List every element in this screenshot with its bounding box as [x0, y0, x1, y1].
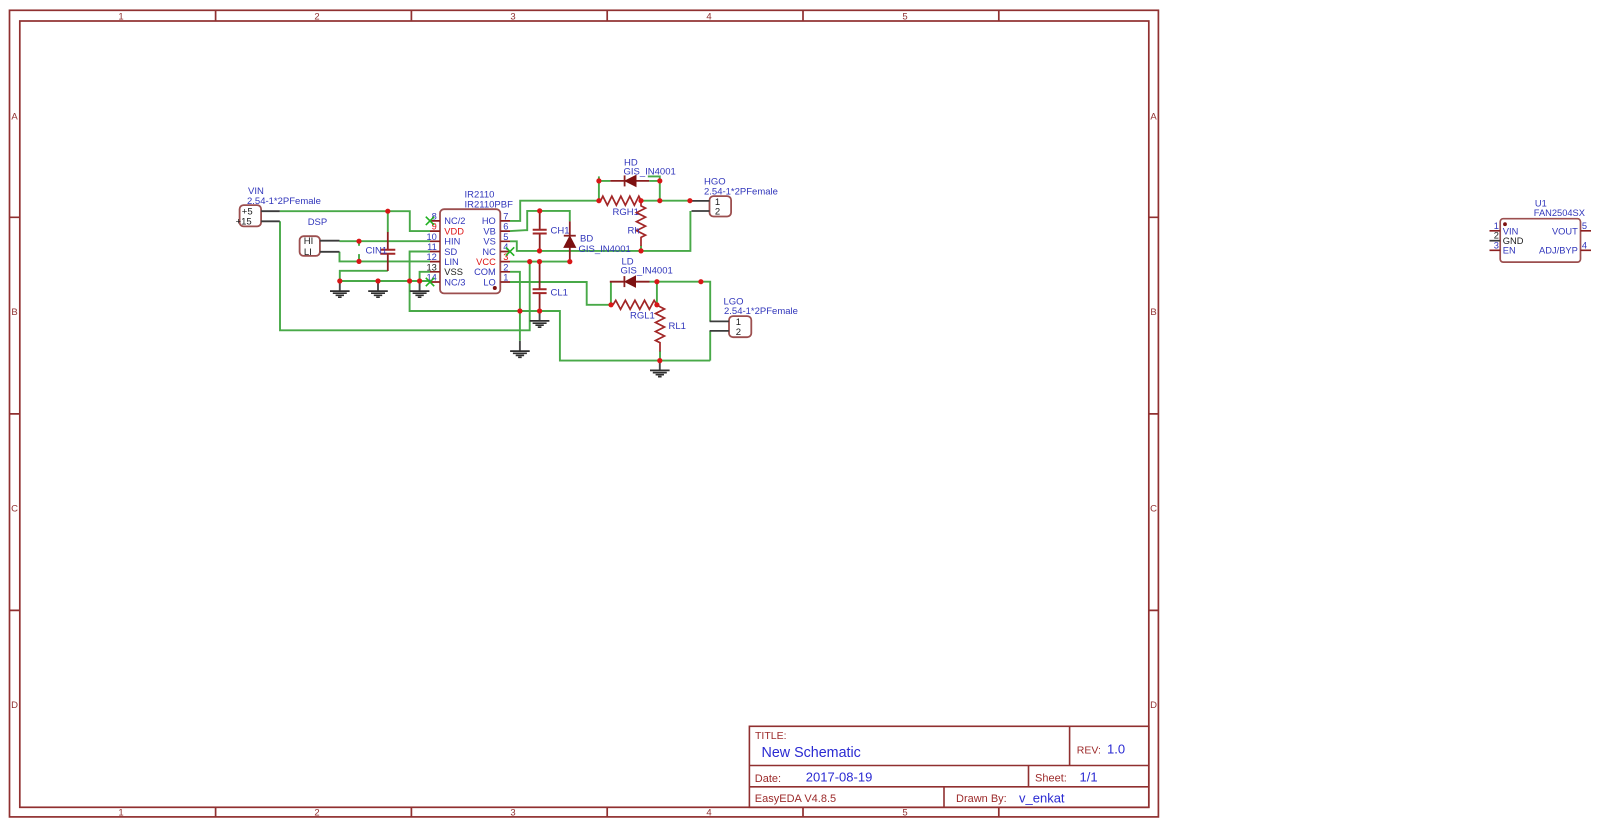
svg-text:RGL1: RGL1 [630, 310, 655, 321]
wire LO to RGL1 left node [510, 282, 611, 305]
svg-text:HI: HI [304, 236, 314, 247]
svg-text:GIS_IN4001: GIS_IN4001 [621, 265, 673, 276]
svg-text:RL1: RL1 [669, 321, 686, 332]
capacitor CIN1 [366, 232, 396, 271]
wire LD left leg down [610, 282, 612, 305]
ground G2 [368, 283, 388, 297]
svg-text:1.0: 1.0 [1107, 742, 1125, 757]
svg-text:4: 4 [706, 11, 711, 22]
wire VSS to ground bus [420, 272, 430, 281]
svg-text:VCC: VCC [476, 257, 496, 267]
ground G1 [330, 283, 350, 297]
svg-text:FAN2504SX: FAN2504SX [1534, 208, 1585, 218]
svg-text:A: A [1150, 112, 1157, 123]
ground G6 (bottom bus) [650, 363, 670, 377]
wire COM to ground [510, 272, 520, 341]
svg-text:2.54-1*2PFemale: 2.54-1*2PFemale [724, 306, 798, 317]
wire VS net to Rh bottom and HGO pin 2 [510, 211, 690, 251]
svg-text:TITLE:: TITLE: [755, 730, 787, 742]
svg-text:COM: COM [474, 267, 496, 277]
no-connect X pin 4 [506, 247, 514, 255]
wire RL1 bottom to ground bus [659, 351, 661, 361]
svg-text:C: C [11, 504, 18, 515]
diode LD GIS_IN4001 [610, 257, 673, 288]
wire VB to CH1/BD [510, 211, 570, 231]
junction dots [337, 178, 703, 363]
ground G4 (COM) [510, 341, 530, 358]
svg-text:Sheet:: Sheet: [1035, 773, 1067, 785]
svg-text:CL1: CL1 [551, 288, 568, 299]
no-connect X pin 14 [426, 278, 434, 286]
svg-text:12: 12 [426, 252, 436, 262]
svg-text:2: 2 [314, 808, 319, 819]
connector DSP (HI/LI) [300, 217, 340, 258]
svg-text:2.54-1*2PFemale: 2.54-1*2PFemale [247, 196, 321, 207]
svg-text:v_enkat: v_enkat [1019, 791, 1065, 806]
svg-text:4: 4 [706, 808, 711, 819]
svg-text:1/1: 1/1 [1080, 770, 1098, 785]
svg-text:A: A [11, 112, 18, 123]
svg-text:8: 8 [432, 211, 437, 221]
svg-text:Date:: Date: [755, 773, 781, 785]
svg-text:ADJ/BYP: ADJ/BYP [1539, 246, 1578, 256]
svg-text:2: 2 [314, 11, 319, 22]
svg-text:VS: VS [483, 237, 495, 247]
svg-text:3: 3 [510, 11, 515, 22]
svg-text:4: 4 [1582, 240, 1587, 250]
svg-text:1: 1 [118, 11, 123, 22]
svg-text:CIN1: CIN1 [366, 246, 388, 257]
svg-text:1: 1 [503, 273, 508, 283]
svg-text:7: 7 [503, 211, 508, 221]
wire CIN1 bottom to ground bus [340, 271, 388, 281]
wire LD right to LGO pin 1 [655, 282, 710, 322]
wire CIN1 top [387, 211, 389, 232]
svg-text:Drawn By:: Drawn By: [956, 793, 1007, 805]
svg-text:REV:: REV: [1077, 745, 1101, 757]
wire LGO pin 2 to bottom bus [709, 331, 711, 361]
svg-text:HIN: HIN [444, 237, 460, 247]
svg-text:5: 5 [902, 11, 907, 22]
svg-text:New Schematic: New Schematic [762, 745, 861, 761]
resistor RGL1 [613, 300, 657, 321]
svg-text:10: 10 [426, 232, 436, 242]
svg-text:3: 3 [1494, 240, 1499, 250]
svg-text:RGH1: RGH1 [613, 207, 639, 218]
svg-text:1: 1 [1494, 221, 1499, 231]
wire dashed stub lower at node LIN [358, 254, 360, 261]
svg-text:11: 11 [427, 242, 437, 252]
resistor RL1 [656, 305, 686, 352]
wire +5 to VDD (pin 9) [280, 211, 430, 231]
svg-text:B: B [11, 307, 17, 318]
ground G3 [410, 283, 430, 297]
wire HD left leg [598, 176, 600, 200]
svg-text:B: B [1150, 307, 1156, 318]
svg-text:5: 5 [1582, 221, 1587, 231]
wire LI to LIN (pin 12) [340, 252, 431, 262]
connector VIN [236, 186, 321, 228]
connector HGO [692, 176, 778, 217]
svg-text:GND: GND [1503, 236, 1524, 246]
wire Rh bottom to VS net [640, 246, 642, 251]
wire LD right leg down to RGL1 right node [656, 282, 658, 305]
svg-text:NC/3: NC/3 [444, 277, 465, 287]
svg-text:D: D [1150, 700, 1157, 711]
svg-text:VB: VB [483, 226, 495, 236]
svg-text:LI: LI [304, 247, 312, 258]
IC U1 FAN2504SX [1490, 199, 1592, 263]
wire HO to RGH1 [510, 201, 601, 221]
ground G5 (CL1) [530, 313, 550, 327]
title block [749, 726, 1148, 807]
svg-text:HO: HO [482, 216, 496, 226]
svg-text:C: C [1150, 504, 1157, 515]
svg-text:LO: LO [483, 277, 495, 287]
wire ground bus [340, 280, 430, 282]
svg-text:D: D [11, 700, 18, 711]
wire SD to ground net and bottom bus [410, 252, 711, 361]
wire +15 to VCC [280, 221, 530, 330]
resistor RGH1 [601, 196, 642, 218]
resistor Rh [628, 201, 646, 246]
svg-text:2017-08-19: 2017-08-19 [806, 770, 873, 785]
svg-text:2: 2 [1494, 231, 1499, 241]
svg-text:5: 5 [902, 808, 907, 819]
svg-text:1: 1 [118, 808, 123, 819]
svg-text:SD: SD [444, 247, 457, 257]
svg-text:VOUT: VOUT [1552, 226, 1578, 236]
svg-text:5: 5 [503, 232, 508, 242]
svg-text:2.54-1*2PFemale: 2.54-1*2PFemale [704, 187, 778, 198]
wire dashed stub upper at node HIN [358, 241, 360, 246]
svg-text:IR2110PBF: IR2110PBF [465, 199, 514, 210]
wire HD right leg [648, 176, 660, 200]
svg-text:DSP: DSP [308, 217, 328, 228]
wire VCC bus [510, 261, 570, 263]
wire RGH1 to HGO pin 1 [641, 200, 692, 202]
svg-text:+15: +15 [236, 217, 252, 228]
svg-text:EasyEDA V4.8.5: EasyEDA V4.8.5 [755, 793, 836, 805]
no-connect X pin 8 [426, 217, 434, 225]
svg-text:NC/2: NC/2 [444, 216, 465, 226]
diode HD GIS_IN4001 [601, 158, 676, 187]
svg-text:VDD: VDD [444, 226, 464, 236]
svg-text:2: 2 [736, 327, 741, 338]
connector LGO [710, 296, 798, 338]
svg-text:NC: NC [482, 247, 496, 257]
svg-text:3: 3 [510, 808, 515, 819]
IC IR2110 [426, 190, 513, 294]
capacitor CL1 [533, 262, 568, 311]
svg-text:EN: EN [1503, 246, 1516, 256]
svg-text:LIN: LIN [444, 257, 458, 267]
svg-text:VIN: VIN [1503, 226, 1519, 236]
svg-text:VSS: VSS [444, 267, 463, 277]
svg-text:2: 2 [715, 207, 720, 218]
sheet frame [10, 10, 1159, 817]
svg-text:13: 13 [426, 262, 436, 272]
svg-text:GIS_IN4001: GIS_IN4001 [579, 244, 631, 255]
svg-text:2: 2 [503, 262, 508, 272]
svg-text:Rh: Rh [628, 225, 640, 236]
svg-text:6: 6 [503, 222, 508, 232]
svg-text:4: 4 [503, 242, 508, 252]
capacitor CH1 [533, 212, 570, 250]
svg-text:GIS_IN4001: GIS_IN4001 [624, 166, 676, 177]
wire HI to HIN (pin 10) [340, 240, 431, 242]
diode BD GIS_IN4001 [564, 221, 631, 261]
